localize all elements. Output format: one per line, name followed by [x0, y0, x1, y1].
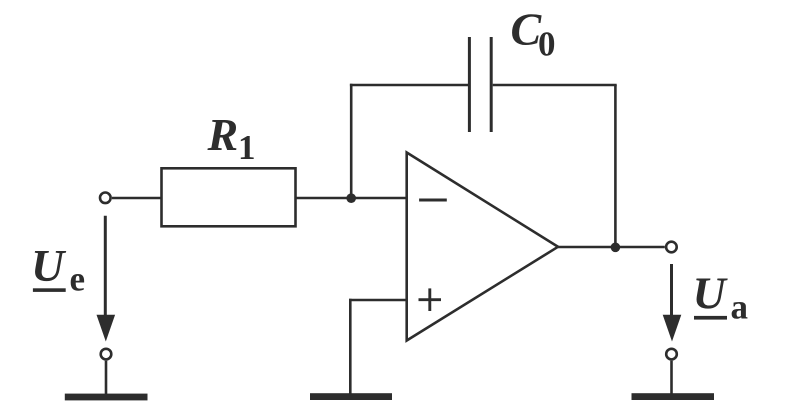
- svg-text:U: U: [693, 268, 729, 319]
- op-amp non-inverting input (plus) marker: [419, 288, 442, 311]
- wire: non-inverting input horizontal: [349, 299, 407, 302]
- label R1: [207, 109, 256, 167]
- svg-text:R: R: [207, 109, 239, 160]
- svg-text:a: a: [731, 287, 749, 326]
- node: inverting input junction: [346, 193, 356, 203]
- lower terminal (right): [666, 349, 677, 360]
- svg-text:0: 0: [538, 25, 556, 64]
- wire: op-amp output to output terminal: [558, 246, 665, 249]
- wire: feedback branch vertical up from node: [350, 84, 353, 198]
- input terminal (left, Ue top): [100, 193, 111, 204]
- wire: C0 right plate to feedback right corner: [493, 84, 617, 87]
- op-amp inverting input (minus) marker: [419, 199, 447, 202]
- op-amp U1 triangle: [407, 153, 558, 341]
- wire: input terminal to R1: [112, 197, 162, 200]
- label Ue: [31, 240, 85, 298]
- lower terminal (left): [101, 349, 112, 360]
- label C0: [511, 3, 556, 63]
- wire: feedback top horizontal to C0 left plate: [350, 84, 468, 87]
- wire: lower terminal to ground (right): [670, 361, 673, 394]
- output terminal (right, Ua top): [666, 242, 677, 253]
- voltage arrow Ua: [663, 264, 682, 342]
- ground (op-amp non-inverting input): [310, 393, 392, 400]
- wire: lower terminal to ground (left): [105, 361, 108, 394]
- resistor R1: [162, 168, 296, 226]
- svg-text:U: U: [31, 240, 67, 291]
- svg-text:e: e: [70, 259, 86, 298]
- ground (left): [65, 394, 148, 401]
- label Ua: [693, 268, 749, 327]
- ground (right): [632, 393, 715, 400]
- node: output junction: [611, 243, 621, 253]
- wire: non-inverting input down to ground: [349, 299, 352, 394]
- svg-text:1: 1: [238, 128, 256, 167]
- capacitor C0: [469, 37, 491, 132]
- wire: R1 to op-amp inverting input: [296, 197, 407, 200]
- wire: feedback vertical down to output node: [614, 85, 617, 248]
- voltage arrow Ue: [97, 216, 116, 342]
